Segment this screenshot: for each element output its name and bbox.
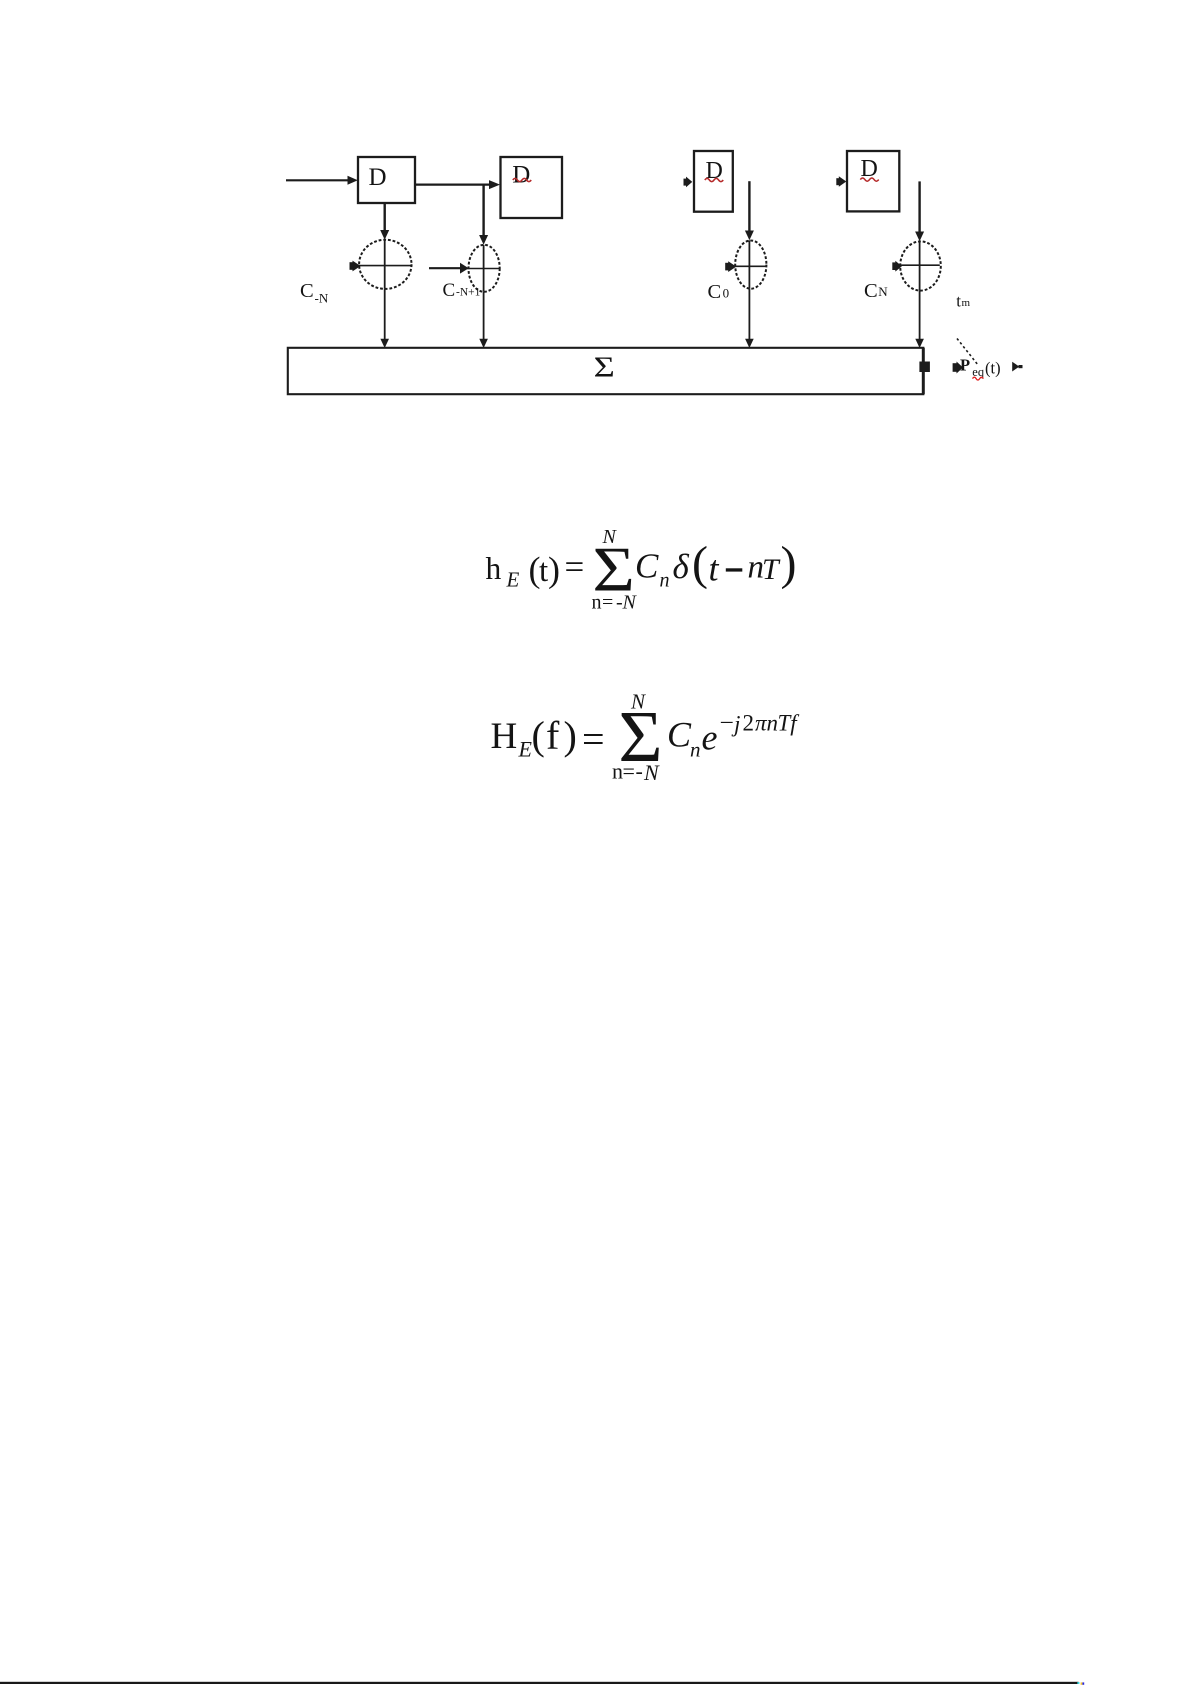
multiplier M1 [355, 240, 413, 289]
wire M2 to summer [483, 292, 485, 340]
arrowhead M2 into summer [479, 339, 488, 348]
wire M4 to summer [919, 291, 921, 340]
sampling switch (dotted diagonal) [957, 339, 978, 366]
arrowhead coefficient into M2 [460, 263, 469, 274]
svg-text:(: ( [692, 537, 708, 590]
svg-text:(t): (t) [985, 359, 1001, 378]
arrowhead coefficient input into M1 [350, 261, 361, 272]
svg-text:t: t [539, 553, 548, 589]
label tm [956, 291, 970, 310]
spellcheck squiggle under D3 label [705, 178, 723, 181]
arrowhead into D1 [348, 176, 358, 185]
svg-text:H: H [491, 716, 518, 757]
svg-text:t: t [709, 549, 720, 589]
delay block D1 [358, 157, 415, 203]
arrowhead M4 into summer [915, 339, 924, 348]
arrowhead M1 into summer [380, 339, 389, 348]
svg-text:δ: δ [673, 547, 690, 586]
wire M3 to summer [748, 289, 750, 340]
svg-text:C: C [635, 547, 659, 586]
svg-text:C: C [708, 281, 722, 303]
label Peq(t) [960, 355, 1001, 379]
svg-text:n: n [612, 759, 623, 784]
wire down to M3 [748, 181, 750, 231]
delay block D2 [501, 157, 563, 218]
svg-text:Tf: Tf [778, 711, 801, 736]
arrowhead coefficient into M4 [892, 261, 902, 272]
multiplier M2 [467, 245, 500, 292]
svg-text:N: N [878, 284, 888, 299]
svg-text:): ) [548, 549, 560, 589]
wire junction from D1-D2 wire down to M2 [482, 185, 484, 236]
svg-text:n: n [690, 738, 701, 762]
svg-text:=: = [565, 547, 585, 586]
svg-text:E: E [506, 568, 520, 592]
arrowhead into M1 [380, 230, 389, 240]
label CN [864, 280, 888, 302]
spellcheck squiggle under D4 label [860, 178, 878, 181]
label C0 [708, 281, 730, 303]
svg-text:f: f [546, 713, 560, 758]
svg-text:C: C [864, 280, 878, 302]
summer block [288, 348, 924, 394]
svg-text:Σ: Σ [594, 352, 615, 383]
arrowhead into M3 [745, 231, 754, 241]
wire input to D1 [286, 179, 349, 181]
svg-text:D: D [369, 164, 387, 191]
svg-text:C: C [443, 280, 456, 301]
svg-text:N: N [622, 592, 638, 614]
svg-text:=: = [582, 717, 605, 762]
svg-text:C: C [300, 280, 314, 302]
output arrowhead right [1012, 362, 1022, 372]
svg-text:πn: πn [755, 711, 778, 736]
delay block D4 [847, 151, 899, 211]
svg-text:-N: -N [315, 290, 329, 305]
arrowhead into M4 [915, 232, 924, 242]
wire down to M4 [918, 181, 920, 232]
equation 2: HE(f) = sum Cn e^-j2pinTf [491, 690, 801, 786]
svg-text:m: m [962, 297, 971, 309]
spellcheck squiggle under eq [973, 377, 984, 380]
svg-text:n: n [592, 592, 602, 614]
arrowhead coefficient into M3 [725, 261, 736, 272]
svg-text:2: 2 [743, 711, 755, 736]
wire M1 to summer [384, 289, 386, 340]
svg-text:N: N [643, 760, 660, 785]
svg-text:=: = [623, 759, 635, 784]
svg-text:): ) [781, 537, 797, 590]
svg-text:P: P [960, 355, 970, 374]
multiplier M4 [899, 241, 941, 290]
svg-text:C: C [667, 715, 692, 755]
arrowhead into D2 [489, 180, 500, 189]
wire coefficient input into M2 [429, 267, 461, 269]
svg-text:N: N [630, 690, 646, 714]
equation 1: hE(t) = sum Cn delta(t-nT) [486, 526, 797, 614]
multiplier M3 [733, 240, 767, 288]
footer rule [0, 1682, 1079, 1684]
wire D1 to D2 [415, 184, 490, 186]
svg-text:-N+1: -N+1 [456, 286, 481, 298]
svg-text:E: E [518, 736, 533, 761]
svg-text:–: – [720, 708, 733, 733]
label C-N+1 [443, 280, 481, 301]
label C-N [300, 280, 329, 306]
svg-text:-: - [636, 759, 643, 784]
spellcheck squiggle under D2 label [513, 178, 531, 181]
svg-text:n: n [660, 570, 670, 592]
svg-text:D: D [512, 161, 530, 188]
footer cursor artifacts [1077, 1682, 1079, 1684]
svg-text:N: N [602, 526, 618, 548]
wire D1 down to multiplier M1 [384, 203, 386, 231]
arrowhead into M2 [479, 235, 488, 245]
delay block D3 [694, 151, 733, 212]
output node square on summer edge [919, 362, 930, 373]
svg-text:e: e [702, 718, 718, 758]
arrowhead input into D3 [684, 177, 693, 188]
svg-text:(: ( [532, 713, 545, 758]
output arrow marker before P [953, 362, 963, 374]
svg-text:h: h [486, 551, 502, 586]
svg-text:T: T [762, 553, 781, 586]
svg-text:): ) [564, 713, 577, 758]
svg-text:0: 0 [723, 286, 730, 301]
arrowhead M3 into summer [745, 339, 754, 348]
arrowhead input into D4 [836, 176, 846, 187]
svg-text:=: = [602, 592, 613, 614]
